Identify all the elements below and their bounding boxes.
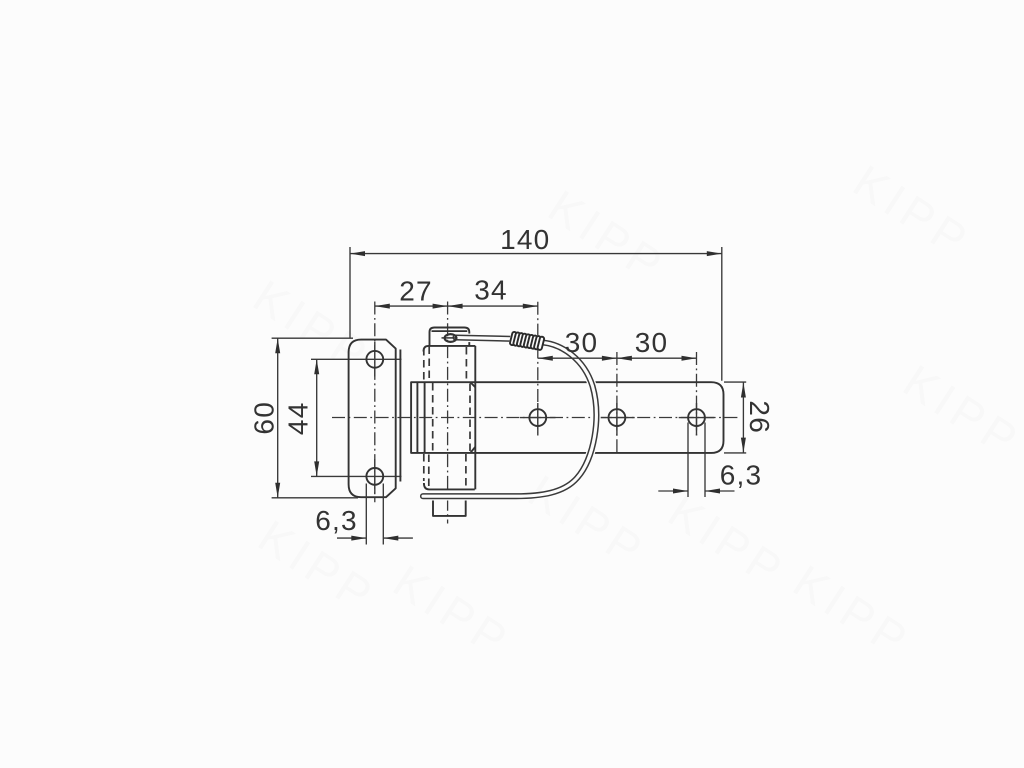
svg-text:140: 140 [500, 224, 550, 255]
svg-text:30: 30 [635, 327, 669, 358]
svg-text:26: 26 [744, 400, 775, 434]
svg-text:27: 27 [399, 275, 433, 306]
svg-text:30: 30 [565, 327, 599, 358]
svg-text:6,3: 6,3 [315, 505, 358, 536]
svg-text:6,3: 6,3 [720, 459, 763, 490]
svg-text:44: 44 [283, 402, 314, 436]
svg-text:34: 34 [474, 275, 508, 306]
svg-text:60: 60 [248, 401, 279, 435]
